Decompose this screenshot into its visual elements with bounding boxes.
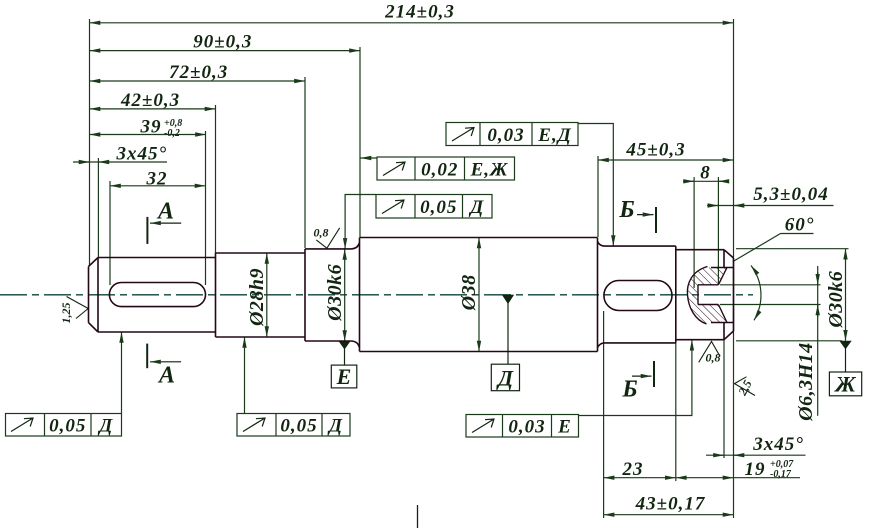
svg-text:0,03: 0,03 — [487, 125, 524, 146]
svg-text:Е: Е — [336, 364, 352, 389]
svg-text:42±0,3: 42±0,3 — [120, 90, 180, 111]
svg-text:5,3±0,04: 5,3±0,04 — [753, 184, 828, 205]
svg-text:0,8: 0,8 — [706, 351, 721, 365]
svg-text:Д: Д — [97, 416, 113, 437]
svg-text:214±0,3: 214±0,3 — [384, 2, 455, 23]
svg-text:Е,Д: Е,Д — [537, 125, 571, 146]
svg-text:19: 19 — [745, 459, 766, 480]
svg-text:-0,2: -0,2 — [164, 128, 180, 139]
svg-text:Е: Е — [557, 417, 572, 438]
svg-text:23: 23 — [622, 459, 644, 480]
svg-text:39: 39 — [140, 117, 162, 138]
svg-text:Д: Д — [496, 366, 514, 391]
svg-text:Ø30k6: Ø30k6 — [324, 264, 346, 322]
svg-text:3x45°: 3x45° — [115, 144, 167, 165]
svg-text:Б: Б — [618, 197, 634, 223]
svg-text:8: 8 — [700, 162, 711, 183]
svg-text:3x45°: 3x45° — [752, 434, 804, 455]
svg-text:Ø30k6: Ø30k6 — [825, 271, 847, 329]
svg-text:А: А — [156, 199, 174, 225]
svg-text:32: 32 — [146, 168, 168, 189]
svg-text:Ж: Ж — [833, 372, 856, 397]
svg-text:-0,17: -0,17 — [770, 469, 792, 480]
svg-text:0,03: 0,03 — [508, 417, 545, 438]
svg-text:Б: Б — [621, 377, 637, 403]
svg-text:2,5: 2,5 — [735, 378, 755, 399]
svg-text:90±0,3: 90±0,3 — [193, 32, 252, 53]
svg-text:45±0,3: 45±0,3 — [625, 140, 685, 161]
svg-text:Ø6,3H14: Ø6,3H14 — [795, 342, 817, 422]
svg-text:72±0,3: 72±0,3 — [169, 62, 228, 83]
svg-text:0,02: 0,02 — [421, 160, 458, 181]
svg-text:0,05: 0,05 — [49, 416, 86, 437]
svg-text:0,05: 0,05 — [420, 197, 457, 218]
svg-text:Д: Д — [327, 416, 343, 437]
svg-text:0,05: 0,05 — [280, 416, 317, 437]
svg-text:60°: 60° — [785, 215, 815, 236]
svg-text:1,25: 1,25 — [59, 303, 73, 324]
svg-text:А: А — [157, 363, 175, 389]
svg-text:Ø28h9: Ø28h9 — [246, 268, 268, 327]
svg-text:0,8: 0,8 — [314, 226, 329, 240]
svg-text:Д: Д — [468, 197, 484, 218]
svg-text:43±0,17: 43±0,17 — [635, 494, 706, 515]
svg-text:Ø38: Ø38 — [458, 274, 480, 311]
svg-text:Е,Ж: Е,Ж — [470, 160, 509, 181]
